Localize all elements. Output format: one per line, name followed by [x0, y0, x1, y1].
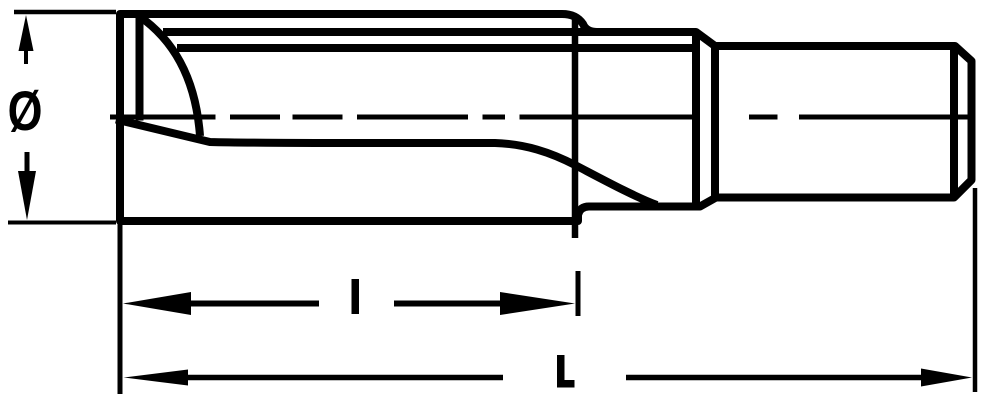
centerline dashes	[110, 115, 974, 120]
shank shoulder	[711, 45, 719, 198]
step line body/neck upper segment	[572, 17, 579, 238]
top extension line (diameter)	[14, 10, 116, 15]
body outline (cylinder + neck + threaded shank silhouette)	[120, 14, 972, 221]
diameter dimension down arrow	[18, 171, 36, 220]
bottom extension line (diameter)	[8, 221, 116, 225]
L dimension right arrow	[921, 369, 972, 387]
flute grind line 2	[177, 44, 694, 52]
L label	[557, 355, 575, 388]
l dimension left arrow	[123, 292, 191, 315]
flute gash arc	[139, 16, 200, 136]
l label	[352, 279, 360, 314]
cutting edge and flute bottom curve	[116, 120, 657, 206]
diameter dimension up arrow	[19, 15, 34, 51]
L dimension left arrow	[124, 370, 189, 386]
flute face vertical	[136, 16, 144, 121]
right extension line	[973, 188, 978, 392]
left extension line below body	[118, 224, 123, 394]
l dimension right arrow	[500, 292, 575, 315]
extension line for l lower segment	[576, 271, 581, 316]
diameter symbol	[8, 79, 43, 142]
shank chamfer edge line	[950, 46, 958, 198]
flute grind line 1	[163, 28, 696, 36]
neck end face	[692, 32, 700, 207]
svg-text:Ø: Ø	[8, 79, 43, 142]
